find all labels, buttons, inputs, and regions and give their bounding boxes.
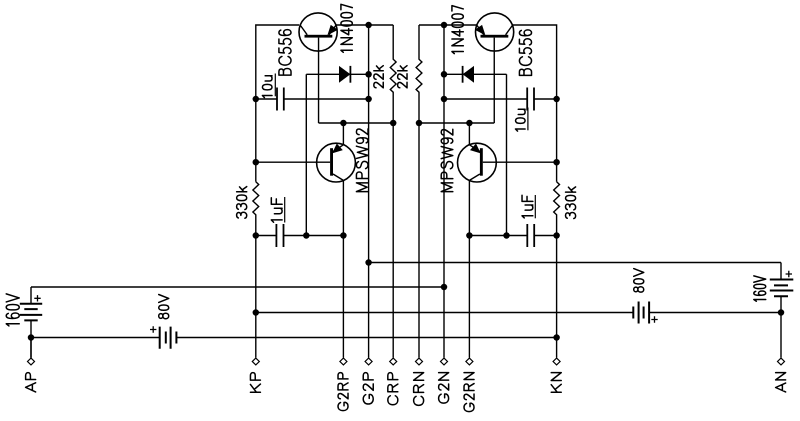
label 330k (right) xyxy=(566,187,576,219)
terminal CRN xyxy=(416,358,423,365)
wire MPSW92-P collector down to G2RP terminal xyxy=(342,180,344,357)
label KP xyxy=(250,373,260,393)
battery 80V (right, horizontal) xyxy=(633,302,649,324)
junction (255.8,312.5) xyxy=(253,309,259,316)
battery 160V (AP, vertical) xyxy=(20,287,42,358)
wire diode anode drop (left, x=306.3) xyxy=(305,74,307,235)
junction (255.8,235.5) xyxy=(253,232,259,239)
wire MPSW92-N collector down to G2RN terminal xyxy=(468,180,470,357)
battery 80V (left, horizontal) xyxy=(160,327,177,349)
label CRN xyxy=(414,373,424,406)
junction (556.6,99) xyxy=(553,96,560,103)
label G2P xyxy=(363,373,373,404)
junction (368.6,74.3) xyxy=(365,71,372,78)
transistor BC556 (left, PNP) xyxy=(299,13,337,123)
label MPSW92 (left) xyxy=(356,129,368,192)
terminal AN xyxy=(778,358,785,365)
terminal G2P xyxy=(365,358,372,365)
junction (444,74.3) xyxy=(441,71,448,78)
resistor 22k (CRP, x=393.2) xyxy=(390,25,396,358)
label 80V (right) xyxy=(634,269,644,293)
label AP xyxy=(26,373,36,392)
label G2RN xyxy=(464,373,474,412)
plus sign (AN battery) xyxy=(786,271,792,277)
junction (306.3,235.5) xyxy=(303,232,310,239)
label 10u (left, underlined) xyxy=(262,76,272,98)
label BC556 (right) xyxy=(519,30,531,76)
junction (31,337.5) xyxy=(28,334,35,341)
label G2RP xyxy=(338,373,348,411)
transistor MPSW92 (left, PNP) xyxy=(317,143,356,182)
junction (444,99) xyxy=(441,96,448,103)
junction (506.5,235.5) xyxy=(503,232,510,239)
wire G2P vertical xyxy=(368,25,370,358)
diode 1N4007 (left) xyxy=(306,66,368,83)
junction (393.2,123) xyxy=(390,120,397,127)
junction (343.4,235.5) xyxy=(340,232,347,239)
wire MPSW92-P emitter up to base rail xyxy=(342,123,344,145)
plus sign (80V right) xyxy=(651,316,657,322)
wire diode anode drop (right, x=506.5) xyxy=(506,74,508,235)
resistor 22k (CRN, x=419) xyxy=(416,25,422,358)
wire G2N vertical xyxy=(443,25,445,358)
label BC556 (left) xyxy=(279,30,291,76)
junction (469.4,235.5) xyxy=(466,232,473,239)
diode 1N4007 (right) xyxy=(444,66,507,83)
junction (368.6,25) xyxy=(365,22,372,29)
label 330k (left) xyxy=(237,187,247,219)
wire line B (G2P to AN battery top, y=262.5) xyxy=(369,262,781,264)
label 1uF (left, underlined) xyxy=(271,198,282,223)
junction (255.8,99) xyxy=(253,96,259,103)
wire base rail P (BC556-P base to CRP, y=123) xyxy=(319,122,394,124)
label 1uF (right, underlined) xyxy=(522,195,533,218)
wire MPSW92-N base to KN rail xyxy=(483,161,557,163)
wire MPSW92-N emitter up to base rail xyxy=(468,123,470,145)
label 80V (left) xyxy=(159,295,169,319)
junction (343.4,123) xyxy=(340,120,347,127)
wire MPSW92-P base to KP rail xyxy=(256,161,330,163)
capacitor 10u (right) xyxy=(444,88,557,111)
terminal KN xyxy=(553,358,560,365)
terminal G2RN xyxy=(466,358,473,365)
wire line D (AP battery bottom to KN, y=337.5) xyxy=(31,337,557,339)
label KN xyxy=(551,373,561,393)
plus sign (AP battery) xyxy=(34,295,40,301)
label 22k (right) xyxy=(398,66,407,88)
battery 160V (AN, vertical) xyxy=(770,263,794,358)
label 1N4007 (left) xyxy=(341,4,352,52)
label G2N xyxy=(439,373,449,404)
capacitor 1uF (right) xyxy=(469,224,556,247)
label 160V (AN) xyxy=(754,276,766,301)
label 10u (right, underlined) xyxy=(516,109,526,131)
junction (444,287) xyxy=(441,284,448,291)
wire top rail P (KP corner, BC556-P, to CRP corner) xyxy=(256,25,393,182)
wire top rail N (CRN corner, BC556-N, to KN corner) xyxy=(419,25,557,182)
transistor MPSW92 (right, PNP, mirrored) xyxy=(458,143,497,182)
wire line A (AP battery top to G2N, y=287) xyxy=(31,286,444,288)
junction (556.6,162.2) xyxy=(553,159,560,166)
label 22k (left) xyxy=(374,66,383,88)
label 1N4007 (right) xyxy=(452,6,463,54)
junction (255.8,162.2) xyxy=(253,159,259,166)
junction (469.4,123) xyxy=(466,120,473,127)
junction (368.6,262.5) xyxy=(365,259,372,266)
terminal CRP xyxy=(390,358,397,365)
label CRP xyxy=(388,373,398,405)
terminal KP xyxy=(252,358,259,365)
capacitor 10u (left) xyxy=(256,88,369,111)
resistor 330k (right, on KN rail) xyxy=(554,182,560,358)
label 160V (AP) xyxy=(6,294,19,326)
transistor BC556 (right, PNP, mirrored) xyxy=(476,13,514,123)
terminal G2N xyxy=(441,358,448,365)
resistor 330k (left, on KP rail) xyxy=(253,182,259,358)
junction (444,25) xyxy=(441,22,448,29)
junction (419,123) xyxy=(416,120,423,127)
terminal G2RP xyxy=(340,358,347,365)
junction (368.6,99) xyxy=(365,96,372,103)
terminal AP xyxy=(28,358,35,365)
label MPSW92 (right) xyxy=(441,129,453,191)
wire line C (KP to AN battery bottom, y=312.5) xyxy=(256,312,781,314)
wire AP terminal stub xyxy=(30,338,32,358)
label AN xyxy=(776,373,786,392)
plus sign (80V left) xyxy=(150,326,156,332)
capacitor 1uF (left) xyxy=(256,224,344,247)
junction (556.6,337.5) xyxy=(553,334,560,341)
junction (556.6,235.5) xyxy=(553,232,560,239)
wire base rail N (CRN to BC556-N base, y=123) xyxy=(419,122,494,124)
junction (781,312.5) xyxy=(778,309,785,316)
